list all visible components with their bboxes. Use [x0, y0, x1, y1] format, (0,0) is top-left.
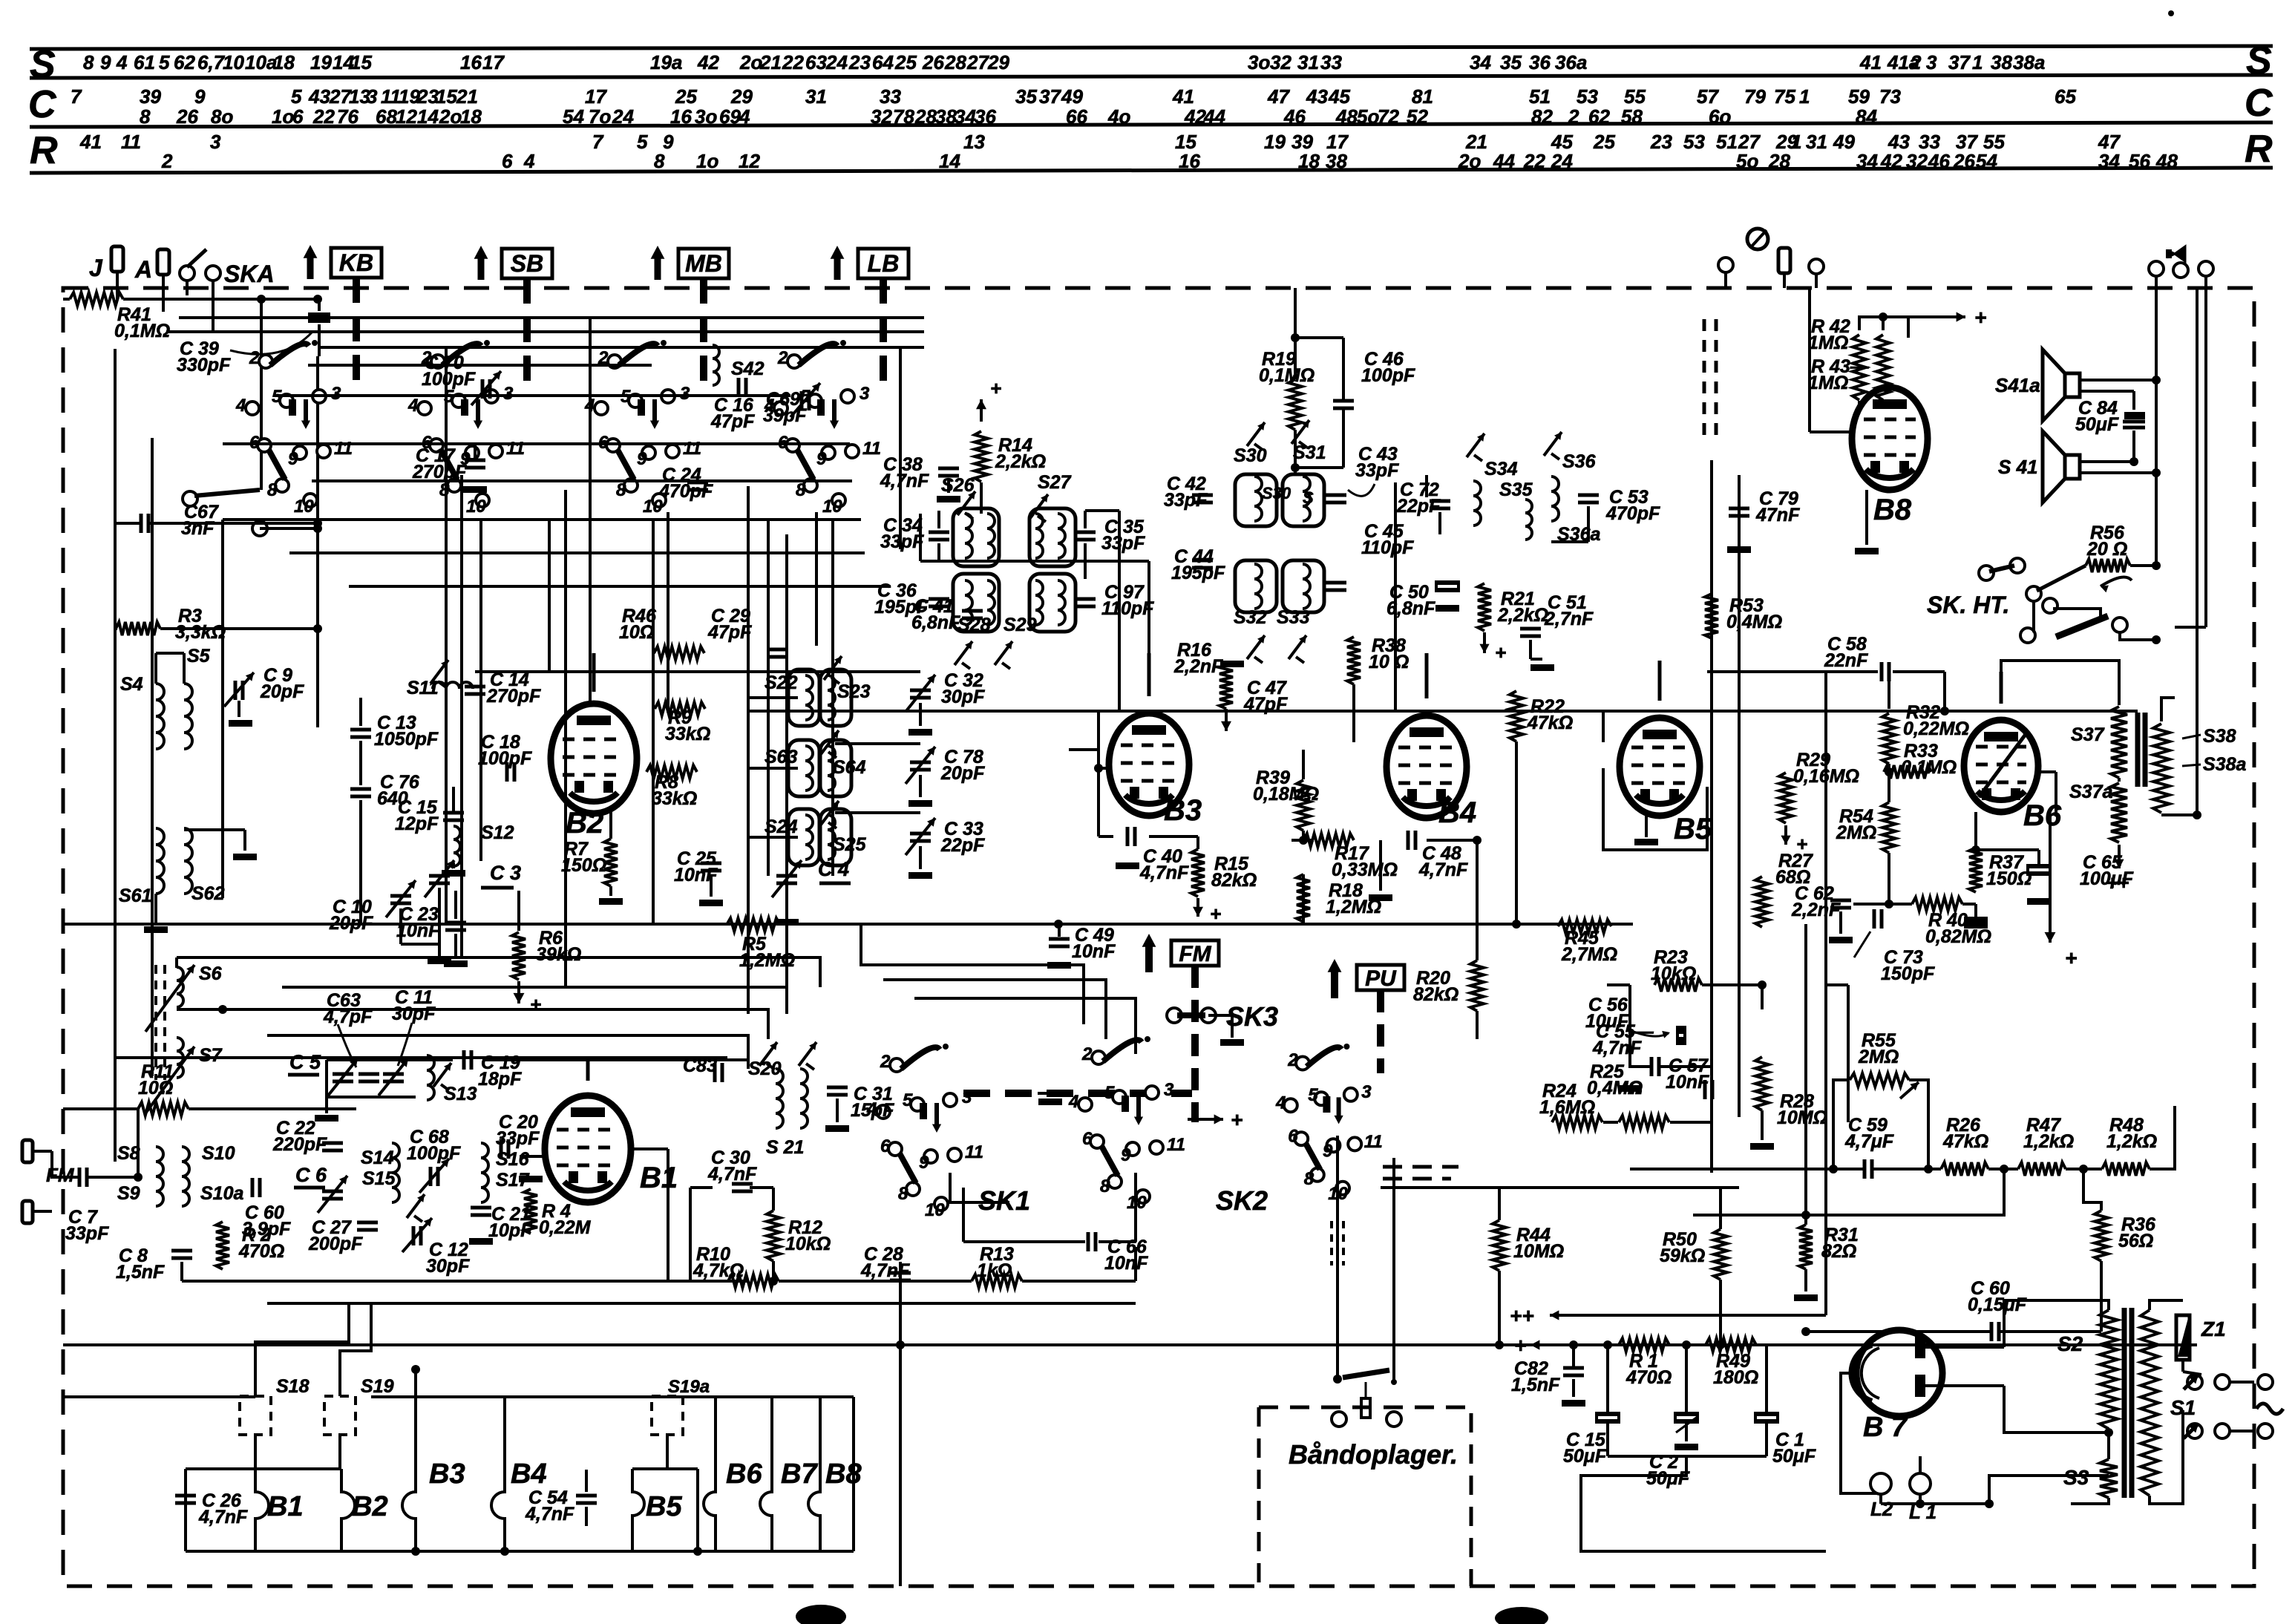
svg-text:SK. HT.: SK. HT. — [1927, 592, 2009, 618]
svg-text:30pF: 30pF — [392, 1003, 436, 1024]
svg-text:19: 19 — [1264, 131, 1286, 153]
svg-text:10: 10 — [294, 497, 314, 517]
coil S14 S15 — [392, 1143, 399, 1202]
svg-text:SK1: SK1 — [978, 1185, 1030, 1216]
svg-text:75: 75 — [1774, 85, 1795, 108]
IF can box S29 — [1029, 574, 1076, 632]
resistor R46 — [654, 646, 704, 660]
svg-text:10kΩ: 10kΩ — [1651, 963, 1696, 984]
capacitor C46 — [1333, 399, 1354, 403]
svg-text:38a: 38a — [2013, 51, 2045, 73]
resistor R15 — [1191, 849, 1205, 897]
switch SK3 — [1167, 1008, 1182, 1023]
svg-text:S31: S31 — [1293, 442, 1326, 463]
svg-text:50μF: 50μF — [1772, 1446, 1816, 1467]
capacitor C82 — [1563, 1366, 1584, 1370]
switch wafer PU SK — [1296, 1057, 1309, 1070]
svg-text:22nF: 22nF — [1824, 650, 1868, 671]
wire B3 column — [1099, 767, 1109, 770]
svg-text:2o: 2o — [439, 105, 462, 128]
output transformer S37 — [2111, 707, 2127, 778]
svg-text:3: 3 — [680, 384, 690, 404]
resistor R17 — [1303, 834, 1354, 847]
svg-text:82kΩ: 82kΩ — [1211, 870, 1257, 891]
capacitor C51 — [1520, 627, 1541, 631]
svg-text:4,7nF: 4,7nF — [525, 1504, 574, 1525]
capacitor C48 — [1407, 831, 1410, 850]
svg-text:R: R — [2245, 128, 2273, 171]
svg-text:SKA: SKA — [224, 261, 275, 287]
resistor R54 — [1882, 802, 1896, 853]
heater block B8 — [808, 1397, 820, 1551]
svg-text:36: 36 — [975, 105, 996, 128]
svg-text:S23: S23 — [837, 681, 871, 702]
svg-text:S32: S32 — [1234, 607, 1267, 628]
wire B8 left — [1810, 430, 1852, 433]
switch wafer KB — [259, 355, 272, 368]
svg-text:S12: S12 — [481, 822, 514, 843]
svg-text:S34: S34 — [1484, 459, 1518, 479]
svg-text:B4: B4 — [511, 1458, 547, 1490]
wire left drops — [114, 349, 117, 1162]
chassis dashed border — [63, 288, 2254, 1586]
wire x2460 column — [1824, 672, 1827, 1262]
svg-text:36a: 36a — [1555, 51, 1587, 73]
plug terminal — [1778, 248, 1790, 273]
svg-text:S24: S24 — [765, 816, 798, 837]
heater fuse S19 — [324, 1396, 356, 1435]
capacitor C24 — [687, 481, 708, 485]
svg-text:B7: B7 — [781, 1458, 818, 1490]
svg-text:C: C — [2245, 82, 2273, 125]
svg-text:S18: S18 — [276, 1376, 310, 1397]
resistor R31 — [1799, 1225, 1813, 1269]
svg-text:+: + — [1231, 1108, 1243, 1131]
resistor R33 — [1884, 765, 1931, 779]
svg-text:A: A — [134, 256, 152, 283]
FM bold arrow — [1145, 941, 1153, 972]
capacitor C43 — [1326, 494, 1346, 497]
svg-text:41: 41 — [1172, 85, 1194, 108]
resistor R26 — [1941, 1162, 1988, 1176]
svg-text:3o: 3o — [1248, 51, 1270, 73]
dashed pair PU lower — [1383, 1165, 1458, 1169]
wire psu bottom — [1824, 1262, 1827, 1315]
coil S34 — [1473, 481, 1481, 525]
IF can box S23 — [820, 669, 851, 726]
svg-text:2,2kΩ: 2,2kΩ — [1497, 605, 1548, 626]
svg-text:43: 43 — [308, 85, 330, 108]
svg-text:24: 24 — [612, 105, 634, 128]
svg-text:7: 7 — [71, 85, 82, 108]
capacitor C14 — [465, 685, 485, 689]
wire speaker buses — [2155, 288, 2158, 566]
mains tilde — [2256, 1404, 2283, 1414]
svg-text:180Ω: 180Ω — [1713, 1367, 1758, 1388]
svg-text:S30: S30 — [1262, 484, 1291, 502]
svg-text:5: 5 — [903, 1090, 913, 1110]
svg-text:470pF: 470pF — [658, 481, 713, 502]
svg-text:34: 34 — [1856, 150, 1878, 172]
svg-text:68: 68 — [376, 105, 397, 128]
svg-text:2: 2 — [880, 1052, 891, 1072]
capacitor C73 — [1873, 909, 1876, 929]
svg-text:69: 69 — [719, 105, 741, 128]
speaker terminals — [2149, 261, 2164, 276]
svg-text:3o: 3o — [695, 105, 717, 128]
heater bottom bus — [186, 1550, 854, 1553]
ground S62 — [233, 854, 257, 860]
svg-text:S6: S6 — [199, 963, 223, 984]
svg-text:100pF: 100pF — [422, 369, 476, 390]
coil S8 S9 — [156, 1147, 163, 1206]
svg-text:8o: 8o — [211, 105, 233, 128]
capacitor C19 — [462, 1050, 466, 1070]
svg-text:0,4MΩ: 0,4MΩ — [1726, 612, 1782, 632]
svg-text:17: 17 — [585, 85, 607, 108]
capacitor C44 — [1192, 559, 1213, 563]
svg-text:9: 9 — [919, 1153, 929, 1173]
wires right columns upper — [1943, 672, 1946, 711]
svg-text:FM: FM — [1179, 942, 1211, 966]
svg-text:23: 23 — [848, 51, 871, 73]
svg-text:J: J — [89, 255, 103, 281]
svg-text:33: 33 — [1320, 51, 1342, 73]
svg-text:18: 18 — [1298, 150, 1320, 172]
coil S16 S17 — [481, 1143, 488, 1202]
svg-text:S19: S19 — [361, 1376, 394, 1397]
svg-text:2o: 2o — [739, 51, 762, 73]
svg-text:29: 29 — [730, 85, 753, 108]
resistor R20 — [1470, 960, 1484, 1011]
heater block B3 — [402, 1397, 416, 1551]
svg-text:8: 8 — [654, 150, 665, 172]
wire bus audio y1575 — [1630, 1168, 1830, 1170]
svg-text:66: 66 — [1066, 105, 1087, 128]
tape switch — [1333, 1375, 1342, 1384]
svg-text:3: 3 — [1361, 1082, 1372, 1102]
headphone symbol — [1747, 229, 1768, 249]
svg-text:3: 3 — [860, 384, 870, 404]
svg-text:16: 16 — [670, 105, 692, 128]
svg-text:9: 9 — [288, 449, 298, 469]
svg-text:PU: PU — [1365, 966, 1397, 991]
svg-text:2: 2 — [249, 348, 260, 368]
trimmer C78 — [910, 761, 931, 764]
mains transformer secondary S2 — [2100, 1310, 2118, 1429]
capacitor C72 — [1430, 500, 1450, 503]
svg-text:110pF: 110pF — [1101, 598, 1154, 619]
svg-text:46: 46 — [1283, 105, 1306, 128]
svg-text:39pF: 39pF — [763, 405, 807, 426]
svg-text:+: + — [530, 993, 541, 1015]
dot top right — [2168, 10, 2174, 16]
capacitor C40 — [1126, 827, 1130, 846]
capacitor C7 — [78, 1168, 82, 1187]
svg-text:S 21: S 21 — [766, 1137, 804, 1158]
svg-text:7o: 7o — [589, 105, 611, 128]
svg-text:6: 6 — [292, 105, 304, 128]
heater block B2 — [341, 1469, 355, 1551]
svg-text:10: 10 — [466, 497, 486, 517]
svg-text:5: 5 — [1308, 1085, 1318, 1105]
svg-text:33pF: 33pF — [65, 1223, 109, 1244]
resistor R40 — [1912, 897, 1962, 911]
svg-text:32: 32 — [1270, 51, 1291, 73]
svg-text:SB: SB — [511, 250, 543, 277]
heater capacitor C54 — [576, 1494, 597, 1498]
svg-text:47kΩ: 47kΩ — [1527, 713, 1573, 733]
svg-text:1MΩ: 1MΩ — [1808, 333, 1848, 353]
svg-text:42: 42 — [1184, 105, 1206, 128]
capacitor C31 — [827, 1086, 848, 1090]
svg-text:59kΩ: 59kΩ — [1660, 1245, 1705, 1266]
svg-text:+: + — [990, 377, 1001, 399]
tube B4 — [1387, 716, 1467, 818]
tube B7 rectifier — [1856, 1330, 1942, 1416]
wires lower middle — [779, 1280, 972, 1283]
svg-text:5: 5 — [1104, 1083, 1115, 1103]
capacitor C35 — [1075, 531, 1096, 534]
stair wires to SK1 — [297, 957, 820, 987]
wires B1 — [586, 1060, 590, 1081]
svg-text:R: R — [30, 129, 58, 172]
svg-text:+: + — [2065, 946, 2077, 969]
electrolytic C65 — [2026, 864, 2052, 876]
svg-text:S42: S42 — [731, 358, 765, 379]
band box LB — [858, 249, 908, 278]
band box FM — [1171, 940, 1219, 966]
svg-text:53: 53 — [1683, 131, 1705, 153]
svg-text:2: 2 — [777, 348, 788, 368]
heater block B4 — [491, 1397, 505, 1551]
svg-text:150pF: 150pF — [1881, 963, 1935, 984]
svg-text:4,7μF: 4,7μF — [1844, 1131, 1894, 1152]
wire wafer rows — [308, 364, 652, 367]
svg-text:220pF: 220pF — [272, 1134, 327, 1155]
resistor R44 — [1493, 1220, 1506, 1271]
svg-text:82kΩ: 82kΩ — [1413, 984, 1458, 1005]
resistor R47 — [2018, 1162, 2066, 1176]
svg-text:1: 1 — [1791, 131, 1801, 153]
wires output transformer — [2001, 661, 2119, 705]
svg-text:S9: S9 — [117, 1183, 140, 1204]
svg-text:0,4MΩ: 0,4MΩ — [1587, 1078, 1643, 1099]
svg-text:5: 5 — [637, 131, 648, 153]
svg-text:47kΩ: 47kΩ — [1942, 1131, 1988, 1152]
svg-text:1: 1 — [1972, 51, 1983, 73]
svg-text:S3: S3 — [2063, 1466, 2089, 1489]
stair wires SK1 SK2 — [861, 924, 1084, 1024]
IF coil S63 S64 — [805, 746, 813, 790]
svg-text:57: 57 — [1697, 85, 1719, 108]
svg-text:21: 21 — [456, 85, 478, 108]
wires B4 area — [1425, 475, 1428, 497]
switch SK HT — [1979, 566, 1994, 580]
svg-text:10a: 10a — [245, 51, 277, 73]
svg-text:15: 15 — [350, 51, 372, 73]
svg-text:470pF: 470pF — [1605, 503, 1660, 524]
svg-text:B1: B1 — [640, 1162, 678, 1194]
wire bus rows top-left — [179, 316, 924, 319]
svg-text:9: 9 — [1323, 1141, 1333, 1161]
svg-text:47: 47 — [1267, 85, 1290, 108]
capacitor C8 — [171, 1249, 192, 1253]
speaker S41a — [2043, 350, 2065, 421]
svg-text:28: 28 — [914, 105, 937, 128]
capacitor C62 — [1830, 899, 1851, 903]
svg-text:61: 61 — [134, 51, 155, 73]
svg-text:53: 53 — [1577, 85, 1598, 108]
capacitor C60 — [1990, 1322, 1994, 1341]
svg-text:21: 21 — [759, 51, 782, 73]
resistor R28 — [1755, 1057, 1769, 1110]
mains transformer S3 — [2100, 1459, 2118, 1498]
wire right column x2343 — [1738, 475, 1741, 1117]
svg-text:1,2kΩ: 1,2kΩ — [2023, 1131, 2074, 1152]
wires coil block — [154, 672, 157, 684]
svg-text:76: 76 — [337, 105, 359, 128]
svg-text:S61: S61 — [119, 885, 151, 906]
wires C5 block — [327, 1058, 416, 1061]
svg-text:62: 62 — [174, 51, 195, 73]
svg-text:27: 27 — [966, 51, 989, 73]
trimmer cap C9 — [234, 681, 238, 700]
svg-text:1,6MΩ: 1,6MΩ — [1539, 1097, 1595, 1118]
svg-text:10: 10 — [925, 1200, 945, 1220]
svg-text:+: + — [1796, 833, 1807, 855]
svg-text:B2: B2 — [566, 807, 603, 839]
variable capacitor C3 — [429, 874, 450, 878]
switch wafer SB — [431, 355, 445, 368]
svg-text:10Ω: 10Ω — [619, 622, 654, 643]
resistor R36 — [2095, 1211, 2108, 1261]
svg-text:2MΩ: 2MΩ — [1836, 822, 1876, 843]
svg-text:12: 12 — [396, 105, 417, 128]
svg-text:S22: S22 — [765, 672, 798, 693]
svg-text:0,22MΩ: 0,22MΩ — [1903, 718, 1969, 739]
svg-text:Båndoplager.: Båndoplager. — [1289, 1439, 1458, 1470]
svg-text:25: 25 — [1593, 131, 1615, 153]
ground B8 — [1855, 548, 1879, 554]
svg-text:54: 54 — [1976, 150, 1997, 172]
svg-text:34: 34 — [955, 105, 976, 128]
IF can box S28 — [953, 574, 999, 632]
resistor R39 — [1297, 780, 1310, 831]
wires B7 — [1925, 1346, 2004, 1349]
heater fuse S18 — [240, 1396, 271, 1435]
variable cap C6 — [322, 1190, 343, 1194]
svg-text:17: 17 — [482, 51, 505, 73]
svg-text:49: 49 — [1833, 131, 1855, 153]
svg-text:48: 48 — [1335, 105, 1358, 128]
svg-text:36: 36 — [1529, 51, 1551, 73]
svg-text:4: 4 — [235, 396, 246, 416]
svg-text:9: 9 — [194, 85, 206, 108]
coil S4 with core — [156, 684, 164, 749]
svg-text:15pF: 15pF — [851, 1100, 894, 1121]
svg-text:2MΩ: 2MΩ — [1858, 1047, 1899, 1067]
svg-text:1o: 1o — [696, 150, 718, 172]
wire bus y958 — [748, 710, 2138, 713]
svg-text:32: 32 — [1906, 150, 1928, 172]
svg-text:11: 11 — [862, 439, 881, 459]
capacitor C29 — [767, 648, 788, 652]
potentiometer R55 — [1850, 1073, 1909, 1087]
svg-text:S25: S25 — [833, 834, 867, 855]
svg-text:S 41: S 41 — [1998, 456, 2038, 478]
svg-text:10: 10 — [223, 51, 244, 73]
arrow plus B6 — [2049, 816, 2052, 943]
heater pilot L2 L1 — [1870, 1473, 1891, 1494]
svg-text:S38a: S38a — [2203, 754, 2246, 775]
svg-text:S33: S33 — [1277, 607, 1310, 628]
resistor R4 — [524, 1189, 537, 1234]
svg-text:47nF: 47nF — [1755, 505, 1800, 525]
resistor R5 — [727, 918, 780, 931]
svg-text:19: 19 — [310, 51, 332, 73]
svg-text:11: 11 — [965, 1142, 983, 1162]
svg-text:9: 9 — [100, 51, 111, 73]
svg-text:5o: 5o — [1736, 150, 1758, 172]
wire bus y1756 — [267, 1302, 1136, 1305]
svg-text:38: 38 — [1326, 150, 1347, 172]
svg-text:26: 26 — [922, 51, 944, 73]
svg-text:39: 39 — [140, 85, 161, 108]
svg-text:SK3: SK3 — [1226, 1001, 1278, 1032]
svg-text:34: 34 — [2098, 150, 2120, 172]
capacitor C15 — [443, 811, 464, 815]
IF can box S33 — [1283, 560, 1324, 612]
svg-text:1kΩ: 1kΩ — [977, 1260, 1012, 1281]
svg-text:38: 38 — [1991, 51, 2012, 73]
resistor R37 — [1969, 848, 1983, 892]
svg-text:42: 42 — [1880, 150, 1902, 172]
ink blob left — [796, 1605, 846, 1624]
svg-text:65: 65 — [2055, 85, 2076, 108]
svg-text:1,5nF: 1,5nF — [1511, 1375, 1560, 1395]
switch wafer SK1 — [890, 1058, 903, 1072]
wires IF block — [748, 696, 798, 699]
svg-text:11: 11 — [334, 439, 353, 459]
IF can box S27 — [1029, 508, 1076, 566]
wire x2433 upper — [1804, 924, 1807, 1215]
svg-text:35: 35 — [1015, 85, 1037, 108]
svg-text:14: 14 — [939, 150, 960, 172]
svg-text:S29: S29 — [1004, 615, 1037, 635]
wiring table rail S — [30, 46, 2273, 49]
trimmer C32 — [910, 689, 931, 693]
svg-text:62: 62 — [1588, 105, 1610, 128]
resistor R41 — [70, 292, 123, 306]
svg-text:56: 56 — [2129, 150, 2150, 172]
svg-text:330pF: 330pF — [177, 355, 231, 376]
svg-text:470Ω: 470Ω — [238, 1241, 284, 1262]
output transformer S38 — [2153, 724, 2170, 813]
svg-text:S: S — [2246, 39, 2272, 82]
svg-text:4,7pF: 4,7pF — [323, 1006, 373, 1027]
svg-text:11: 11 — [121, 131, 141, 153]
capacitor C41 — [962, 609, 983, 613]
svg-text:S37a: S37a — [2069, 782, 2112, 802]
wire antenna bus — [261, 298, 319, 301]
svg-text:B3: B3 — [1164, 794, 1202, 827]
svg-text:2o: 2o — [1458, 150, 1481, 172]
svg-text:3: 3 — [331, 384, 341, 404]
resistor R10 — [728, 1274, 779, 1288]
capacitor C53 — [1578, 494, 1599, 497]
svg-text:100pF: 100pF — [478, 748, 532, 769]
